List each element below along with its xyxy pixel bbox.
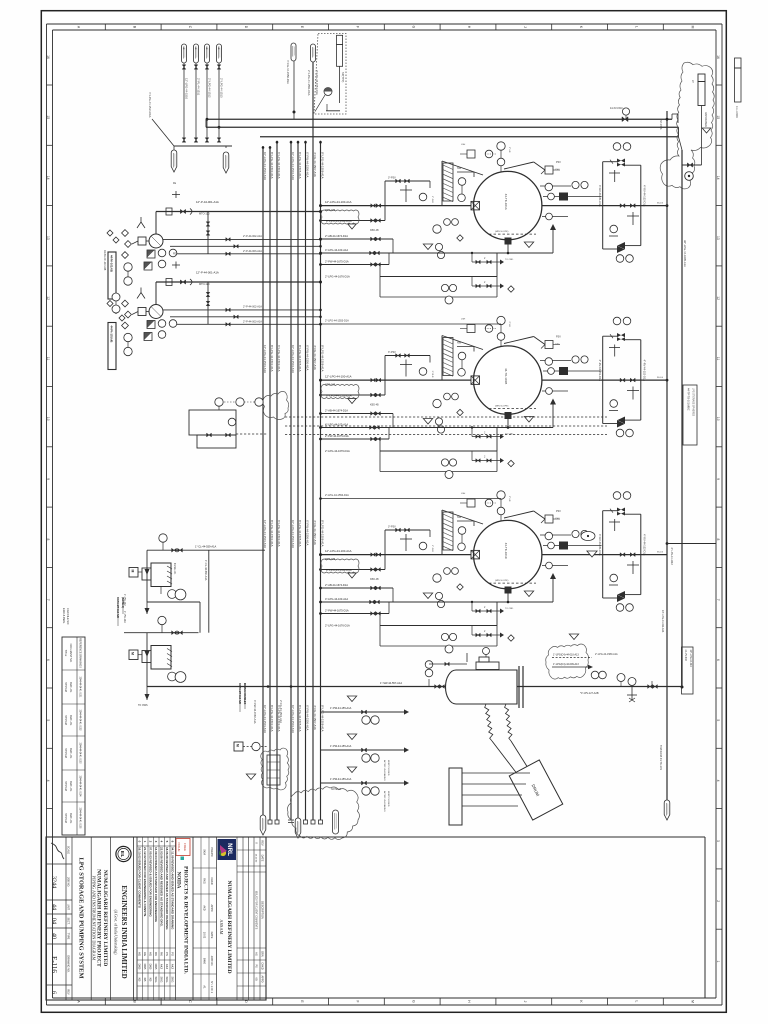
svg-text:2″-LPG-44-1676-D1A: 2″-LPG-44-1676-D1A — [325, 623, 350, 627]
pump A suction diamonds — [122, 230, 138, 259]
svg-text:2″-LPG-44-1512: 2″-LPG-44-1512 — [208, 78, 212, 98]
pump B suction diamonds — [122, 300, 138, 329]
svg-text:1″-XLR: 1″-XLR — [431, 545, 433, 552]
svg-text:CSC: CSC — [555, 344, 560, 346]
collector flag right — [223, 152, 229, 173]
svg-text:DATE: DATE — [261, 855, 265, 862]
svg-text:CHKD: CHKD — [210, 877, 214, 884]
svg-text:AKJ: AKJ — [165, 964, 169, 970]
svg-text:CSC: CSC — [555, 169, 560, 171]
pump A discharge — [156, 182, 322, 234]
top horizontal pipe 2 — [206, 126, 679, 128]
svg-text:6: 6 — [51, 991, 57, 994]
svg-text:RKG: RKG — [203, 878, 207, 884]
top instrument chain row2 — [460, 316, 505, 346]
svg-text:10″-LPG-44-1504-A1A: 10″-LPG-44-1504-A1A — [291, 152, 295, 180]
svg-text:3244-44-04-41-0103: 3244-44-04-41-0103 — [79, 743, 81, 765]
svg-text:TITLE: TITLE — [64, 650, 67, 657]
top instrument chain row1 — [460, 142, 505, 172]
svg-text:RK: RK — [154, 952, 158, 956]
svg-text:10.02: 10.02 — [203, 932, 207, 939]
pipe headers bundle — [262, 61, 323, 824]
pump A instruments — [124, 249, 177, 285]
svg-text:2″-AB-44-1674-D1A: 2″-AB-44-1674-D1A — [325, 583, 348, 587]
wall instruments row1 — [458, 178, 466, 202]
svg-text:VAPORISER: VAPORISER — [704, 112, 708, 127]
svg-text:44-TK-101B: 44-TK-101B — [504, 368, 508, 384]
svg-text:1″-XLR: 1″-XLR — [431, 371, 433, 378]
top instrument chain row3 — [460, 491, 505, 521]
svg-text:8″-LPG-44-1502-A1A: 8″-LPG-44-1502-A1A — [270, 152, 274, 179]
svg-text:10″-LPG-44-1501-A1A: 10″-LPG-44-1501-A1A — [263, 705, 267, 733]
svg-text:1″-PW-44-155-A1A: 1″-PW-44-155-A1A — [330, 707, 352, 710]
motor valve row2 — [471, 376, 480, 385]
title block frame — [46, 837, 266, 1000]
svg-text:6: 6 — [46, 659, 50, 661]
pump B block — [138, 305, 163, 319]
collector flag left — [171, 150, 177, 172]
relief loop row3 — [598, 492, 647, 612]
instrument cluster left row2 — [423, 393, 463, 433]
pump B discharge — [156, 253, 322, 305]
svg-text:PSV: PSV — [556, 510, 561, 513]
secondary inlet row2 — [319, 380, 385, 397]
svg-text:LSH: LSH — [461, 319, 466, 321]
branch b row2 — [319, 408, 393, 427]
svg-text:44-TK-101C: 44-TK-101C — [504, 543, 508, 560]
svg-text:13: 13 — [716, 236, 720, 240]
svg-text:8″-LPG-44-1502-A1A: 8″-LPG-44-1502-A1A — [270, 520, 274, 547]
wall instruments row2 — [458, 352, 466, 376]
svg-text:PS: PS — [165, 952, 169, 956]
title block NRL logo — [218, 839, 237, 860]
svg-text:PS: PS — [170, 952, 174, 956]
header bottom flag 1 — [260, 815, 266, 835]
svg-text:44-PA-CF-110 A/B: 44-PA-CF-110 A/B — [103, 250, 106, 271]
svg-text:10″-LPG-44-010: 10″-LPG-44-010 — [689, 650, 692, 668]
svg-text:JOB NO.: JOB NO. — [210, 956, 214, 967]
svg-text:SP(TYP): SP(TYP) — [341, 72, 345, 82]
svg-text:CHKD: CHKD — [261, 962, 265, 969]
branch c row3 — [319, 602, 389, 615]
svg-text:P&ID LPG: P&ID LPG — [69, 682, 71, 693]
svg-text:40: 40 — [51, 933, 58, 939]
svg-text:3″-PSV: 3″-PSV — [388, 177, 396, 180]
drawing area separation lines (right strip) — [46, 837, 705, 998]
svg-text:6″-LPG-44-1503-A1A: 6″-LPG-44-1503-A1A — [277, 520, 281, 547]
svg-text:ASSAM: ASSAM — [219, 919, 224, 934]
svg-text:4″-RV-44-152-D1A: 4″-RV-44-152-D1A — [643, 360, 647, 382]
title block drawing title — [78, 837, 92, 1000]
svg-text:16.10.02 ISSUED FOR CLIENT CO: 16.10.02 ISSUED FOR CLIENT COMMENTS — [137, 847, 141, 908]
svg-text:AFTER UNLOADING: AFTER UNLOADING — [383, 791, 386, 812]
branch b row3 — [319, 583, 393, 602]
title block small header row — [66, 837, 72, 1000]
svg-text:4″-FG-44-1507-A1A: 4″-FG-44-1507-A1A — [313, 345, 317, 370]
vessel left piping — [436, 686, 438, 688]
title block project rows — [92, 837, 111, 1000]
secondary inlet row1 — [319, 206, 385, 223]
svg-text:LPG STORAGE AND PUMPING SYSTEM: LPG STORAGE AND PUMPING SYSTEM — [78, 858, 85, 979]
inlet riser row1 — [442, 161, 545, 206]
svg-text:2″-PL-44-1511: 2″-PL-44-1511 — [197, 78, 201, 96]
cloud level instrument — [682, 74, 711, 180]
svg-text:10: 10 — [46, 417, 50, 421]
mixer name labels — [116, 597, 246, 712]
svg-text:10″-LPG-44-1501-A1A: 10″-LPG-44-1501-A1A — [263, 152, 267, 180]
svg-text:PREPD: PREPD — [210, 848, 214, 857]
svg-text:2″-LPG-44-1553-D1A: 2″-LPG-44-1553-D1A — [325, 320, 349, 323]
pump A seal diamonds — [107, 230, 119, 243]
svg-text:4″-LPG-44-1514-D1A: 4″-LPG-44-1514-D1A — [148, 92, 152, 118]
svg-text:1″-PW-44-155-A1A: 1″-PW-44-155-A1A — [330, 778, 352, 781]
motor valve row1 — [471, 201, 480, 210]
svg-text:6″-LPG-44-1503-A1A: 6″-LPG-44-1503-A1A — [277, 152, 281, 179]
top horizontal pipe 3 — [260, 136, 679, 138]
svg-text:10: 10 — [716, 417, 720, 421]
psv manifold row3 — [385, 526, 430, 555]
svg-text:44-TK-101A: 44-TK-101A — [504, 194, 508, 210]
right nozzles row1 — [540, 181, 602, 220]
top left line flags — [182, 44, 224, 142]
svg-text:SKG: SKG — [165, 977, 169, 983]
svg-text:12″-LPG-44-1510: 12″-LPG-44-1510 — [185, 78, 189, 99]
flag stub F — [311, 44, 320, 95]
svg-text:M: M — [131, 570, 135, 573]
sphere row2 — [474, 346, 542, 414]
svg-text:44-ME-101: 44-ME-101 — [173, 563, 175, 575]
svg-text:07.05.03 REVISED & ISSUED FOR: 07.05.03 REVISED & ISSUED FOR ENGINEERIN… — [148, 847, 152, 917]
svg-text:F: F — [356, 26, 360, 28]
center line right row2 — [542, 377, 667, 382]
bottom outlet row1 — [319, 224, 556, 255]
reference drawings table — [62, 637, 85, 835]
svg-text:4: 4 — [716, 780, 720, 782]
svg-text:MTO-120: MTO-120 — [199, 213, 210, 216]
svg-text:FR: FR — [217, 47, 219, 50]
center line right row1 — [542, 203, 667, 208]
svg-text:LSH: LSH — [461, 493, 466, 495]
svg-text:KBD-4B: KBD-4B — [370, 229, 379, 232]
svg-text:16: 16 — [46, 55, 50, 59]
svg-text:44-VV-502: 44-VV-502 — [684, 650, 687, 662]
right nozzles row2 — [540, 356, 602, 395]
revision cloud top right — [660, 62, 714, 189]
extra line labels — [253, 120, 662, 724]
hoses to drum — [485, 704, 528, 775]
svg-text:TO OWS: TO OWS — [138, 704, 148, 707]
svg-text:18.06.08 REVISED AND ISSUED A: 18.06.08 REVISED AND ISSUED AS STANDARD … — [165, 847, 169, 930]
svg-text:SCALE: SCALE — [66, 846, 69, 855]
svg-text:2″-P-44-003-A1A: 2″-P-44-003-A1A — [243, 250, 262, 253]
svg-text:16: 16 — [716, 55, 720, 59]
mixer A motor — [129, 568, 151, 581]
svg-text:6″-LPG-44-1503-A1A: 6″-LPG-44-1503-A1A — [277, 345, 281, 372]
svg-text:PSV: PSV — [556, 161, 561, 164]
long vertical pipe B — [672, 114, 684, 689]
svg-text:L: L — [635, 1001, 639, 1003]
psv manifold row1 — [385, 177, 430, 206]
svg-text:TO CBD: TO CBD — [505, 434, 514, 436]
inlet riser row2 — [442, 336, 545, 381]
svg-text:8″-LPG-44-1552-D1A: 8″-LPG-44-1552-D1A — [326, 394, 352, 398]
svg-text:4″-LPG-44-103-A1A: 4″-LPG-44-103-A1A — [325, 248, 348, 252]
grid letter cells right band — [77, 998, 695, 1005]
drain instruments row2 — [441, 459, 456, 479]
svg-text:8″-LPG-44-1508-A1A: 8″-LPG-44-1508-A1A — [321, 152, 325, 179]
svg-text:ENGINEERS INDIA LIMITED: ENGINEERS INDIA LIMITED — [120, 885, 127, 978]
pump B instruments — [124, 320, 177, 356]
svg-text:MTO-120: MTO-120 — [199, 283, 210, 286]
sphere row1 — [474, 171, 542, 239]
svg-text:3244-44-04-41-0102: 3244-44-04-41-0102 — [79, 710, 81, 732]
inlet label cloud row3 — [321, 559, 359, 578]
svg-text:2″-LPG-44-1676-D1A: 2″-LPG-44-1676-D1A — [325, 449, 350, 453]
firewall hatch row1 — [443, 163, 474, 202]
svg-text:3: 3 — [716, 840, 720, 842]
svg-text:12″-LPG-44-100-A1A: 12″-LPG-44-100-A1A — [325, 375, 352, 379]
svg-text:FR: FR — [194, 47, 196, 50]
svg-text:L: L — [635, 26, 639, 28]
long vertical pipe A — [666, 111, 669, 800]
svg-text:APPD: APPD — [210, 904, 214, 911]
svg-text:12″-P-44-001-A1A: 12″-P-44-001-A1A — [196, 271, 219, 275]
row2 cloud — [263, 391, 289, 419]
horizontal vessel — [446, 666, 523, 708]
svg-text:M: M — [690, 1000, 694, 1003]
svg-text:4″-FG-44-1507-A1A: 4″-FG-44-1507-A1A — [313, 520, 317, 545]
wall instruments row3 — [458, 527, 466, 551]
svg-text:8″-LPG-44-1505-A1A: 8″-LPG-44-1505-A1A — [298, 520, 302, 547]
header bottom flag 2 — [295, 818, 301, 838]
svg-text:2″-P-44-002-A1A: 2″-P-44-002-A1A — [243, 306, 262, 309]
svg-text:E-116: E-116 — [50, 956, 58, 973]
svg-text:J: J — [523, 26, 527, 28]
svg-text:6″-PW-44-1506-A1A: 6″-PW-44-1506-A1A — [306, 345, 310, 370]
svg-text:8″-LPG-44-1505-A1A: 8″-LPG-44-1505-A1A — [298, 345, 302, 372]
drain box row3 — [325, 601, 497, 646]
svg-text:B460: B460 — [203, 958, 207, 965]
svg-text:REV: REV — [66, 989, 69, 994]
svg-text:44-LI-1509: 44-LI-1509 — [735, 106, 738, 118]
svg-text:12: 12 — [46, 296, 50, 300]
svg-text:DATE: DATE — [210, 932, 214, 939]
svg-text:2″-AB-44-1674-D1A: 2″-AB-44-1674-D1A — [325, 234, 348, 238]
svg-text:LSH: LSH — [461, 144, 466, 146]
branch c row1 — [319, 253, 389, 266]
pump B strainer Y — [137, 288, 145, 299]
svg-text:2″-LPG-44-1580-A1A: 2″-LPG-44-1580-A1A — [595, 653, 618, 656]
svg-text:PIPING AND INSTRUMENTATION DIA: PIPING AND INSTRUMENTATION DIAGRAM — [92, 876, 97, 961]
svg-text:9: 9 — [46, 478, 50, 480]
svg-text:FR: FR — [205, 47, 207, 50]
svg-text:NRL: NRL — [226, 843, 233, 856]
svg-text:8″-LPG-44-1508-A1A: 8″-LPG-44-1508-A1A — [321, 705, 325, 732]
bottom outlet row3 — [319, 573, 556, 604]
svg-text:44: 44 — [51, 904, 58, 910]
main center line row1 — [319, 200, 471, 212]
svg-text:KB: KB — [143, 978, 147, 982]
mixer A vessel — [151, 563, 175, 587]
sample box — [189, 406, 268, 448]
relief box row1 — [541, 161, 561, 174]
svg-text:SYSTEM: SYSTEM — [64, 682, 66, 692]
flag collector piping — [148, 92, 232, 150]
bottom right cloud — [546, 634, 618, 679]
cad file note — [62, 608, 70, 625]
center line right row3 — [542, 552, 667, 557]
title block EIL logo row — [114, 837, 134, 1000]
drain box row1 — [325, 252, 497, 297]
mixer A top line — [147, 534, 265, 552]
mixer A pump pair — [161, 587, 186, 600]
svg-text:NOIDA: NOIDA — [176, 872, 181, 889]
svg-text:DRN: DRN — [261, 951, 265, 957]
svg-text:8″-LPG-44-1552-D1A: 8″-LPG-44-1552-D1A — [326, 219, 352, 223]
svg-text:8″-LPG-44-1508-A1A: 8″-LPG-44-1508-A1A — [321, 520, 325, 547]
svg-text:(MIN SLOPE): (MIN SLOPE) — [495, 231, 509, 233]
svg-text:AKJ: AKJ — [170, 964, 174, 970]
svg-text:E116-6.DWG: E116-6.DWG — [62, 608, 66, 623]
svg-text:KEEP CLOSED: KEEP CLOSED — [387, 791, 389, 807]
svg-text:2″-LR: 2″-LR — [508, 322, 510, 328]
svg-text:ISSUED FOR CLIENT COMMENTS: ISSUED FOR CLIENT COMMENTS — [255, 891, 258, 930]
drain branch 2 row3 — [472, 626, 514, 642]
bottom M station — [234, 742, 268, 780]
svg-text:4″-LPG-44-103-A1A: 4″-LPG-44-103-A1A — [325, 422, 348, 426]
svg-text:4″-RV-44-151-D1A: 4″-RV-44-151-D1A — [598, 360, 602, 382]
svg-text:A1: A1 — [203, 985, 207, 989]
svg-text:M: M — [236, 744, 240, 747]
svg-text:21.12.02 ISSUED FOR ENGINEERI: 21.12.02 ISSUED FOR ENGINEERING & CONSTN… — [143, 847, 147, 917]
instrument cluster left row3 — [423, 568, 463, 608]
svg-text:TO CBD: TO CBD — [505, 608, 514, 610]
svg-text:SYSTEM: SYSTEM — [64, 813, 66, 823]
svg-text:M: M — [131, 652, 135, 655]
svg-text:4″-RV-44-152-D1A: 4″-RV-44-152-D1A — [643, 534, 647, 556]
drain branch 1 row2 — [472, 428, 504, 440]
svg-text:2″-LR: 2″-LR — [508, 496, 510, 502]
svg-text:DKB: DKB — [154, 964, 158, 970]
svg-text:PS: PS — [255, 964, 258, 968]
svg-text:SKM: SKM — [203, 849, 207, 855]
svg-text:4″-LPG-44-103-A1A: 4″-LPG-44-103-A1A — [325, 597, 348, 601]
svg-text:16.10.02: 16.10.02 — [255, 854, 257, 863]
grid number cells top band — [716, 55, 722, 962]
svg-text:RK: RK — [159, 952, 163, 956]
svg-text:4″-PW-133: 4″-PW-133 — [123, 611, 126, 623]
vessel relief assembly — [429, 648, 499, 671]
psv manifold row2 — [385, 351, 430, 380]
title block prepared row — [193, 837, 217, 1000]
top pipe labels — [286, 60, 311, 96]
svg-text:4″-PW-44-1560-A1A: 4″-PW-44-1560-A1A — [253, 700, 257, 724]
svg-text:14: 14 — [716, 176, 720, 180]
row3 inline symbol — [581, 531, 597, 557]
svg-text:FR: FR — [182, 47, 184, 50]
svg-text:SH. 1 OF 1: SH. 1 OF 1 — [210, 981, 213, 994]
sphere row3 — [474, 520, 542, 588]
svg-text:12″-LPG-44-100-A1A: 12″-LPG-44-100-A1A — [325, 549, 352, 553]
svg-text:36-LG: 36-LG — [657, 377, 663, 379]
svg-text:6″-PW-44-1506-A1A: 6″-PW-44-1506-A1A — [306, 705, 310, 730]
svg-text:FE: FE — [173, 253, 176, 256]
svg-text:2″-LR: 2″-LR — [508, 147, 510, 153]
svg-text:4″-FG-44-1507-A1A: 4″-FG-44-1507-A1A — [313, 705, 317, 730]
svg-text:DKB: DKB — [148, 964, 152, 970]
typical detail dashed box — [314, 34, 346, 115]
svg-text:8″-LPG-44-1502-A1A: 8″-LPG-44-1502-A1A — [270, 705, 274, 732]
relief box row2 — [541, 336, 561, 349]
svg-text:REFERENCE DRAWINGS: REFERENCE DRAWINGS — [79, 638, 82, 668]
svg-text:SYSTEM: SYSTEM — [64, 781, 66, 791]
svg-text:SKG: SKG — [159, 977, 163, 983]
loading main line — [147, 681, 681, 688]
pump area extra symbols — [103, 250, 125, 321]
svg-text:NUMALIGARH REFINERY LIMITED: NUMALIGARH REFINERY LIMITED — [102, 870, 108, 967]
svg-text:2″-LPG-44-1513: 2″-LPG-44-1513 — [220, 78, 224, 98]
svg-text:44-TP-TO-101A/B/C: 44-TP-TO-101A/B/C — [687, 388, 690, 411]
svg-text:4″-FG-44-1507-A1A: 4″-FG-44-1507-A1A — [313, 152, 317, 177]
pump B seal diamonds — [107, 301, 119, 314]
svg-text:1″-CL-44-560-A1A: 1″-CL-44-560-A1A — [204, 560, 207, 581]
svg-text:7: 7 — [716, 599, 720, 601]
svg-text:12″-P-44-001-A1A: 12″-P-44-001-A1A — [196, 200, 219, 204]
right loading instruments — [580, 671, 657, 702]
svg-text:12″-LPG-44-100-A1A: 12″-LPG-44-100-A1A — [325, 200, 352, 204]
pump A block — [138, 234, 163, 248]
svg-text:1″-LPG(C4)-44-010-A13: 1″-LPG(C4)-44-010-A13 — [553, 654, 579, 657]
inlet riser row3 — [442, 510, 545, 555]
svg-text:LT: LT — [691, 80, 695, 83]
svg-text:DKB: DKB — [137, 964, 141, 970]
svg-text:44-PA-101A/B: 44-PA-101A/B — [110, 326, 114, 343]
firewall hatch row3 — [443, 512, 474, 551]
svg-text:3244-44-04-41-0101: 3244-44-04-41-0101 — [79, 677, 81, 699]
svg-text:AKD: AKD — [203, 905, 207, 910]
svg-text:7: 7 — [46, 599, 50, 601]
svg-text:JOB NO.: JOB NO. — [66, 877, 69, 887]
svg-text:2″-FG-44-1561-A1A: 2″-FG-44-1561-A1A — [279, 700, 283, 723]
svg-text:36″-LPG-44-1005-A1A: 36″-LPG-44-1005-A1A — [683, 240, 687, 267]
svg-text:SKG: SKG — [170, 977, 174, 983]
svg-text:DOCUMENT NO.: DOCUMENT NO. — [69, 644, 72, 663]
pump A aux lines — [163, 212, 322, 256]
svg-text:TO/FROM 44-TK-101: TO/FROM 44-TK-101 — [659, 745, 663, 770]
bottom outlet row2 — [319, 399, 556, 430]
svg-text:CAD FILE NO:: CAD FILE NO: — [66, 608, 70, 625]
svg-text:G: G — [411, 26, 415, 29]
svg-text:P&ID LPG: P&ID LPG — [69, 813, 71, 824]
svg-text:KB: KB — [148, 978, 152, 982]
svg-text:KEEP CLOSED: KEEP CLOSED — [387, 760, 389, 776]
svg-text:KBD-4B: KBD-4B — [370, 578, 379, 581]
mixer A feed — [145, 550, 150, 602]
svg-text:2″-AB-44-1674-D1A: 2″-AB-44-1674-D1A — [325, 408, 348, 412]
grid number cells bottom band — [46, 55, 52, 808]
right nozzles row3 — [540, 530, 602, 568]
svg-text:1″-CL-44-559-A1A: 1″-CL-44-559-A1A — [195, 545, 217, 549]
svg-text:8″-LPG-44-1502-A1A: 8″-LPG-44-1502-A1A — [270, 345, 274, 372]
pump B aux lines — [163, 282, 322, 326]
inlet label cloud row2 — [321, 385, 359, 404]
pump B name plate — [108, 323, 116, 370]
svg-text:3244: 3244 — [51, 876, 58, 888]
svg-text:EIL: EIL — [120, 851, 125, 858]
svg-text:4″-RV-44-152-D1A: 4″-RV-44-152-D1A — [643, 185, 647, 207]
svg-text:DRAWING NO.: DRAWING NO. — [66, 955, 69, 972]
svg-text:APPD: APPD — [261, 975, 265, 982]
